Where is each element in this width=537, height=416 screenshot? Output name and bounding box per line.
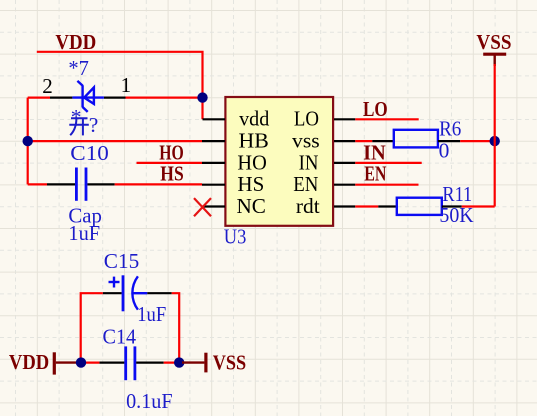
pin LO bbox=[334, 118, 355, 120]
diode *7 pin 1 bbox=[104, 96, 126, 98]
power port VSS (top) bbox=[476, 30, 511, 66]
svg-text:50K: 50K bbox=[439, 203, 474, 227]
svg-text:VSS: VSS bbox=[476, 30, 511, 54]
wire bbox=[126, 96, 203, 98]
pin HO bbox=[202, 162, 225, 164]
junction bbox=[197, 92, 207, 102]
pin HB bbox=[202, 140, 225, 142]
pin IN bbox=[334, 162, 355, 164]
IC U3 body bbox=[225, 97, 333, 226]
wire bbox=[77, 362, 99, 364]
pin HS bbox=[202, 184, 225, 186]
svg-text:VDD: VDD bbox=[9, 350, 49, 374]
wire bbox=[355, 205, 378, 207]
wire bbox=[115, 183, 202, 185]
pin vss bbox=[334, 140, 355, 142]
wire bbox=[460, 140, 495, 142]
capacitor C15 (polarized) bbox=[103, 275, 172, 311]
wire bbox=[28, 183, 47, 185]
svg-text:VDD: VDD bbox=[55, 30, 96, 54]
capacitor C10 bbox=[47, 168, 115, 201]
svg-text:vdd: vdd bbox=[239, 107, 270, 131]
svg-text:0.1uF: 0.1uF bbox=[126, 389, 173, 413]
wire bbox=[494, 64, 496, 207]
wire bbox=[172, 293, 180, 362]
wire bbox=[355, 162, 421, 164]
wire bbox=[28, 140, 202, 142]
power port VDD (bottom) bbox=[9, 350, 79, 375]
resistor R6 bbox=[372, 130, 460, 148]
svg-text:rdt: rdt bbox=[296, 194, 320, 218]
diode *7 body bbox=[72, 81, 104, 112]
power port VSS (bottom) bbox=[182, 351, 246, 375]
svg-text:HS: HS bbox=[160, 161, 183, 185]
svg-text:U3: U3 bbox=[224, 225, 247, 249]
svg-text:LO: LO bbox=[294, 107, 319, 131]
wire bbox=[37, 52, 203, 120]
pin vdd bbox=[203, 118, 226, 120]
wire bbox=[28, 96, 50, 98]
capacitor C14 bbox=[99, 346, 163, 380]
junction bbox=[174, 357, 184, 367]
wire bbox=[355, 118, 418, 120]
wire bbox=[355, 140, 372, 142]
pin NC bbox=[203, 205, 226, 207]
svg-text:1uF: 1uF bbox=[137, 302, 166, 326]
svg-text:IN: IN bbox=[299, 150, 319, 174]
svg-text:2: 2 bbox=[42, 74, 53, 98]
resistor R11 bbox=[378, 198, 461, 215]
wire bbox=[81, 293, 103, 362]
svg-text:C14: C14 bbox=[103, 324, 137, 348]
svg-text:LO: LO bbox=[363, 97, 388, 121]
wire bbox=[164, 362, 184, 364]
svg-text:HO: HO bbox=[237, 150, 266, 174]
pin rdt bbox=[334, 205, 355, 207]
svg-text:1: 1 bbox=[121, 73, 132, 97]
no-ERC marker bbox=[194, 198, 211, 216]
wire bbox=[137, 162, 203, 164]
wire bbox=[27, 98, 29, 185]
junction bbox=[23, 136, 33, 146]
svg-text:*7: *7 bbox=[68, 56, 89, 80]
junction bbox=[76, 357, 86, 367]
svg-text:C10: C10 bbox=[70, 141, 109, 165]
svg-text:EN: EN bbox=[293, 172, 318, 196]
svg-text:C15: C15 bbox=[104, 249, 139, 273]
svg-text:1uF: 1uF bbox=[68, 221, 100, 245]
wire bbox=[355, 184, 418, 186]
svg-text:vss: vss bbox=[292, 129, 320, 153]
svg-text:R6: R6 bbox=[439, 117, 461, 141]
svg-text:EN: EN bbox=[364, 162, 386, 186]
pin EN bbox=[334, 184, 355, 186]
svg-text:HS: HS bbox=[237, 172, 264, 196]
svg-text:HB: HB bbox=[239, 129, 269, 153]
svg-text:0: 0 bbox=[439, 139, 450, 163]
diode *7 pin 2 bbox=[50, 96, 72, 98]
wire bbox=[462, 205, 495, 207]
svg-text:?: ? bbox=[89, 113, 99, 137]
svg-text:VSS: VSS bbox=[213, 351, 247, 375]
svg-text:NC: NC bbox=[237, 194, 266, 218]
junction bbox=[490, 136, 500, 146]
value text 开? bbox=[69, 113, 98, 137]
